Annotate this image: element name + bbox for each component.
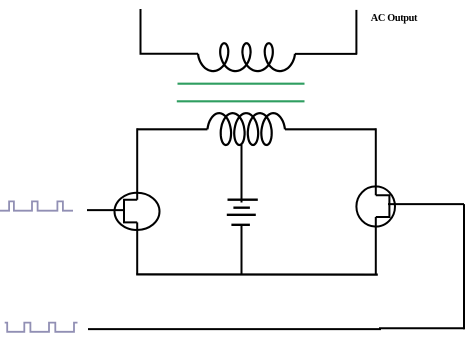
wire primary left — [137, 128, 207, 130]
wire Q1 gate lead — [87, 209, 125, 211]
wire center tap — [241, 144, 243, 203]
signal waveform drive 2 — [5, 323, 78, 332]
signal waveform drive 1 — [0, 201, 73, 210]
wire Q2 gate lead — [388, 203, 464, 205]
wire gate return vertical — [463, 204, 465, 329]
wire primary right — [285, 128, 376, 130]
wire top-right vertical — [355, 10, 357, 55]
net label AC Output — [371, 13, 418, 24]
wire right rail upper — [375, 128, 377, 195]
battery B1 plate short bottom — [231, 224, 250, 226]
wire bottom rail — [136, 273, 378, 275]
wire top horizontal right — [295, 53, 357, 55]
inductor L1 transformer primary — [207, 113, 285, 145]
wire top horizontal left — [140, 53, 199, 55]
transformer core line 2 — [177, 100, 305, 102]
svg-text:AC Output: AC Output — [371, 13, 418, 24]
wire right rail lower — [375, 217, 377, 274]
wire bottom return — [88, 327, 464, 330]
wire top-left vertical — [140, 9, 142, 54]
battery B1 plate long — [227, 214, 256, 216]
wire battery bottom — [241, 225, 243, 275]
battery B1 plate long top — [228, 198, 258, 200]
wire left rail lower — [136, 222, 138, 274]
battery B1 plate short — [233, 206, 250, 208]
transistor Q2 — [356, 186, 395, 226]
wire left rail upper — [136, 128, 138, 199]
inductor L2 transformer secondary — [198, 43, 295, 71]
transformer core line 1 — [178, 83, 305, 85]
transistor Q1 — [115, 193, 160, 230]
